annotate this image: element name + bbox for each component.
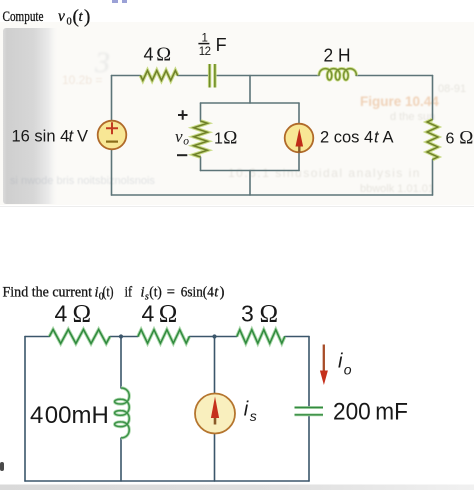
label 1/12 F (198, 33, 226, 59)
wire after inductor (356, 75, 433, 77)
inner box top (201, 102, 300, 104)
capacitor 200mF plates (295, 408, 324, 415)
svg-text:o: o (344, 362, 352, 378)
label 1 ohm (214, 128, 237, 149)
inner box bottom (201, 170, 300, 172)
voltage source 16 sin 4t V (98, 121, 127, 150)
wire right vertical lower (432, 160, 434, 196)
inner box right lower (298, 153, 300, 171)
wire stub inner box to bottom (249, 171, 251, 196)
small dark mark bottom-left (0, 462, 4, 471)
junction dot A (119, 334, 123, 338)
label plus sign of v0 (178, 110, 188, 119)
current source 2 cos 4t A (285, 124, 314, 153)
resistor 1 ohm (inner left) (194, 121, 208, 157)
wire mid vertical upper (to 400mH) (120, 337, 122, 389)
svg-text:1: 1 (214, 131, 223, 148)
inner box left upper (200, 103, 202, 121)
inductor 2H (319, 69, 356, 80)
svg-text:Ω: Ω (159, 301, 178, 328)
svg-text:1: 1 (202, 33, 208, 45)
label 6 ohm (446, 128, 474, 149)
svg-text:00mH: 00mH (45, 402, 109, 429)
svg-text:3: 3 (241, 301, 254, 327)
current source is (195, 394, 235, 434)
wire R3 to right corner (285, 336, 309, 338)
svg-text:4: 4 (55, 301, 68, 327)
svg-text:t: t (214, 285, 219, 301)
svg-text:o: o (183, 136, 189, 148)
svg-text:v: v (175, 127, 183, 146)
svg-text:Ω: Ω (73, 301, 92, 328)
svg-text:Ω: Ω (223, 128, 237, 149)
wire between R and C (178, 75, 209, 77)
wire between R2 and R3 (189, 336, 236, 338)
bleed-through paragraph left (10, 175, 155, 187)
photo background top (0, 22, 474, 205)
svg-text:(t): (t) (149, 285, 162, 301)
svg-text:si nwode bris noitsbiznolsnois: si nwode bris noitsbiznolsnois (10, 175, 155, 187)
wire between C and inductor (216, 75, 319, 77)
wire mid vertical lower (from 400mH) (120, 438, 122, 481)
wire right vertical lower (308, 416, 310, 481)
capacitor 1/12 F plates (210, 64, 215, 88)
svg-text:2 H: 2 H (324, 45, 351, 66)
bottom scan strip (0, 485, 474, 490)
svg-text:10.6.1 sinusoidal analysis in: 10.6.1 sinusoidal analysis in (228, 166, 421, 180)
wire stub top to inner box (249, 76, 251, 104)
svg-text:16 sin 4: 16 sin 4 (12, 128, 70, 146)
wire top-left segment (112, 75, 141, 77)
svg-text:08-91: 08-91 (438, 83, 466, 95)
svg-text:10.2b =: 10.2b = (62, 73, 102, 87)
svg-text:v: v (58, 8, 65, 25)
label 2 cos 4t A (320, 129, 394, 147)
inner box left lower (200, 157, 202, 171)
bleed-through curl mark (94, 46, 110, 79)
label 16 sin 4t V (12, 128, 89, 146)
svg-text:6: 6 (446, 131, 455, 148)
svg-text:): ) (220, 285, 225, 301)
wire right vertical upper (308, 337, 310, 407)
resistor 4 ohm middle (bottom circuit) (138, 330, 190, 344)
svg-text:(t): (t) (103, 285, 114, 301)
svg-text:if: if (125, 285, 133, 301)
inductor 400mH (115, 388, 130, 438)
label 4 ohm middle (142, 301, 178, 328)
label 3 ohm (241, 301, 278, 328)
svg-text:bbwolk 1.01.01: bbwolk 1.01.01 (360, 183, 434, 195)
svg-text:4: 4 (30, 402, 43, 429)
svg-text:2 cos 4: 2 cos 4 (320, 129, 373, 147)
svg-text:200 mF: 200 mF (333, 399, 408, 426)
svg-text:Figure 10.44: Figure 10.44 (360, 94, 439, 109)
svg-text:i: i (338, 351, 343, 373)
svg-text:i: i (244, 399, 249, 421)
svg-text:6sin(4: 6sin(4 (181, 285, 215, 301)
svg-text:Compute: Compute (3, 9, 44, 25)
svg-text:=: = (167, 285, 175, 301)
bleed-through paragraph right (228, 83, 466, 195)
svg-text:Ω: Ω (459, 128, 473, 149)
label 400mH (30, 402, 109, 429)
wire bottom circuit top: left corner to R1 (25, 336, 49, 338)
junction dot B (212, 334, 216, 338)
wire left vertical lower (111, 149, 113, 195)
resistor 3 ohm (bottom circuit) (237, 330, 285, 344)
svg-text:4: 4 (144, 45, 154, 65)
title: Find the current i0(t) (3, 285, 225, 303)
wire right vertical upper (432, 76, 434, 120)
wire source vertical lower (214, 434, 216, 482)
title: Compute v0(t) (3, 7, 91, 28)
svg-text:Ω: Ω (260, 301, 279, 328)
wire left vertical upper (111, 76, 113, 120)
faint photo bottom edge (0, 206, 474, 208)
wire between R1 and R2 (110, 336, 138, 338)
svg-text:V: V (77, 128, 88, 146)
resistor 4 ohm (top) (141, 71, 178, 81)
label v0 (175, 127, 189, 148)
wire source vertical upper (214, 337, 216, 395)
svg-text:4: 4 (142, 301, 155, 327)
svg-text:s: s (250, 408, 257, 424)
label 4 ohm (144, 44, 172, 66)
svg-text:F: F (216, 35, 227, 55)
svg-text:0: 0 (67, 17, 72, 28)
svg-text:): ) (84, 7, 90, 28)
label i0 (338, 351, 352, 378)
resistor 4 ohm left (bottom circuit) (49, 330, 110, 344)
label minus sign of v0 (177, 154, 187, 156)
label is (244, 399, 257, 424)
inner box right upper (298, 103, 300, 124)
wire bottom (112, 194, 433, 196)
bleed-through figure text (360, 94, 439, 109)
wire left vertical (24, 337, 26, 482)
svg-text:Find the current: Find the current (3, 285, 93, 301)
svg-text:12: 12 (199, 46, 211, 58)
tiny blue crop marks top (112, 0, 127, 3)
current arrow i0 (320, 345, 328, 386)
svg-text:A: A (383, 129, 394, 147)
label 4 ohm left (55, 301, 92, 328)
resistor 6 ohm (right) (427, 120, 438, 160)
svg-text:Ω: Ω (156, 44, 171, 66)
wire bottom circuit bottom (25, 480, 309, 482)
